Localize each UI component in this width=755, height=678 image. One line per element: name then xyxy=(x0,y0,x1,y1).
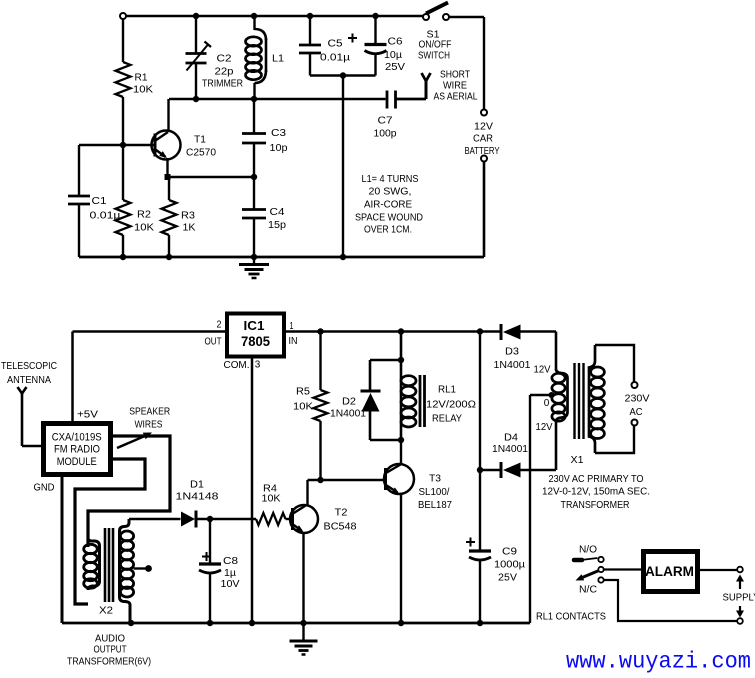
svg-text:10V: 10V xyxy=(221,579,240,590)
svg-text:AS AERIAL: AS AERIAL xyxy=(434,92,478,103)
svg-text:L1: L1 xyxy=(272,54,284,65)
svg-text:+5V: +5V xyxy=(77,410,98,421)
svg-text:SUPPLY: SUPPLY xyxy=(723,593,755,604)
svg-text:R2: R2 xyxy=(137,210,151,221)
svg-text:R1: R1 xyxy=(135,73,148,84)
svg-text:1N4148: 1N4148 xyxy=(176,492,220,503)
svg-text:OUTPUT: OUTPUT xyxy=(94,645,127,656)
svg-text:2: 2 xyxy=(217,320,222,331)
svg-text:R5: R5 xyxy=(296,387,310,398)
svg-text:1N4001: 1N4001 xyxy=(330,409,366,420)
svg-text:AIR-CORE: AIR-CORE xyxy=(364,200,412,211)
svg-text:12V: 12V xyxy=(536,422,553,433)
svg-text:C5: C5 xyxy=(328,39,343,50)
svg-text:10p: 10p xyxy=(270,143,288,154)
svg-text:RELAY: RELAY xyxy=(432,414,462,425)
svg-text:10µ: 10µ xyxy=(384,50,402,61)
svg-text:C9: C9 xyxy=(502,547,517,558)
svg-text:MODULE: MODULE xyxy=(57,456,97,468)
svg-text:FM RADIO: FM RADIO xyxy=(54,444,100,456)
svg-text:T1: T1 xyxy=(194,135,206,146)
svg-text:C7: C7 xyxy=(378,116,393,127)
svg-text:3: 3 xyxy=(255,360,261,371)
svg-text:RL1: RL1 xyxy=(438,385,456,396)
svg-text:0.01µ: 0.01µ xyxy=(320,53,350,64)
svg-text:22p: 22p xyxy=(215,67,234,78)
svg-text:0: 0 xyxy=(544,398,550,409)
svg-text:SPEAKER: SPEAKER xyxy=(129,407,170,418)
svg-text:T3: T3 xyxy=(429,474,441,485)
svg-text:AUDIO: AUDIO xyxy=(95,634,125,645)
svg-text:230V AC PRIMARY TO: 230V AC PRIMARY TO xyxy=(549,474,644,485)
svg-text:TELESCOPIC: TELESCOPIC xyxy=(1,361,57,372)
svg-text:ALARM: ALARM xyxy=(645,564,694,579)
svg-text:12V: 12V xyxy=(474,122,493,133)
svg-text:IC1: IC1 xyxy=(244,318,265,333)
svg-text:WIRE: WIRE xyxy=(443,81,467,92)
svg-text:ON/OFF: ON/OFF xyxy=(419,40,452,51)
svg-text:OVER 1CM.: OVER 1CM. xyxy=(364,225,412,236)
svg-text:7805: 7805 xyxy=(241,333,270,349)
svg-text:X2: X2 xyxy=(99,606,113,617)
svg-text:10K: 10K xyxy=(133,85,153,96)
svg-text:10K: 10K xyxy=(262,494,281,505)
svg-text:12V/200Ω: 12V/200Ω xyxy=(426,400,477,411)
svg-text:T2: T2 xyxy=(335,508,348,519)
svg-text:15p: 15p xyxy=(268,220,286,231)
svg-text:10K: 10K xyxy=(293,402,313,413)
svg-text:ANTENNA: ANTENNA xyxy=(7,375,51,386)
svg-text:TRANSFORMER: TRANSFORMER xyxy=(561,500,630,511)
svg-text:N/C: N/C xyxy=(579,585,597,596)
svg-text:COM.: COM. xyxy=(224,360,250,371)
svg-text:SL100/: SL100/ xyxy=(419,487,450,498)
svg-text:www.wuyazi.com: www.wuyazi.com xyxy=(566,649,751,675)
svg-text:C2570: C2570 xyxy=(186,148,216,159)
svg-text:C6: C6 xyxy=(388,37,403,48)
svg-text:1N4001: 1N4001 xyxy=(494,360,531,371)
svg-text:0.01µ: 0.01µ xyxy=(90,211,121,222)
svg-text:N/O: N/O xyxy=(579,545,597,556)
svg-text:WIRES: WIRES xyxy=(135,420,163,431)
svg-text:D1: D1 xyxy=(190,480,204,491)
svg-text:SHORT: SHORT xyxy=(440,70,470,81)
svg-text:BATTERY: BATTERY xyxy=(465,146,500,157)
svg-text:D4: D4 xyxy=(504,433,518,444)
svg-text:OUT: OUT xyxy=(205,337,222,348)
svg-text:100p: 100p xyxy=(374,129,397,140)
svg-text:BC548: BC548 xyxy=(324,522,357,533)
svg-text:SPACE WOUND: SPACE WOUND xyxy=(355,213,423,224)
svg-text:IN: IN xyxy=(289,336,298,347)
svg-text:10K: 10K xyxy=(134,223,154,234)
svg-text:25V: 25V xyxy=(498,573,517,584)
svg-text:SWITCH: SWITCH xyxy=(418,51,450,62)
svg-text:20 SWG,: 20 SWG, xyxy=(369,187,412,198)
svg-text:L1= 4 TURNS: L1= 4 TURNS xyxy=(362,174,419,185)
svg-text:TRANSFORMER(6V): TRANSFORMER(6V) xyxy=(67,657,151,668)
svg-text:C3: C3 xyxy=(271,128,286,139)
svg-text:C8: C8 xyxy=(223,556,238,567)
svg-text:D2: D2 xyxy=(342,397,356,408)
svg-text:R3: R3 xyxy=(181,211,195,222)
svg-text:C2: C2 xyxy=(217,54,232,65)
svg-text:12V-0-12V, 150mA SEC.: 12V-0-12V, 150mA SEC. xyxy=(542,487,650,498)
svg-text:C4: C4 xyxy=(270,207,285,218)
svg-text:TRIMMER: TRIMMER xyxy=(202,79,243,90)
svg-text:D3: D3 xyxy=(505,347,519,358)
svg-text:12V: 12V xyxy=(534,365,551,376)
svg-text:25V: 25V xyxy=(385,62,405,73)
svg-text:1K: 1K xyxy=(183,223,196,234)
svg-text:C1: C1 xyxy=(92,196,107,207)
svg-text:X1: X1 xyxy=(571,455,584,466)
svg-text:AC: AC xyxy=(630,407,643,418)
svg-text:GND: GND xyxy=(34,483,55,494)
svg-text:RL1 CONTACTS: RL1 CONTACTS xyxy=(536,612,606,623)
svg-text:1N4001: 1N4001 xyxy=(492,444,528,455)
svg-text:230V: 230V xyxy=(625,394,650,405)
svg-text:CAR: CAR xyxy=(473,134,493,145)
svg-text:BEL187: BEL187 xyxy=(418,500,452,511)
svg-text:CXA/1019S: CXA/1019S xyxy=(52,432,102,444)
svg-text:1000µ: 1000µ xyxy=(494,560,525,571)
svg-text:1µ: 1µ xyxy=(224,568,236,579)
